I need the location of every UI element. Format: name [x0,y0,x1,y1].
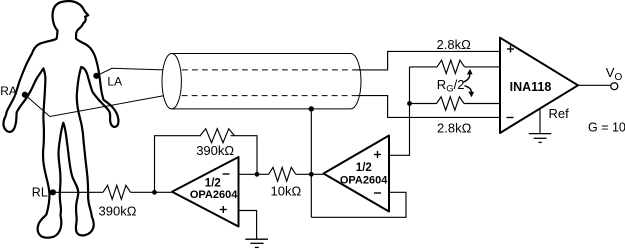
svg-text:RL: RL [32,185,48,199]
svg-text:2.8kΩ: 2.8kΩ [437,37,472,52]
node RL/feedback junction [152,190,157,195]
wire U1 -in stub [239,173,269,175]
svg-text:INA118: INA118 [510,80,552,94]
wire 390k to opamp output [131,191,173,193]
svg-text:Ref: Ref [549,106,570,121]
svg-text:LA: LA [107,75,122,89]
svg-text:390kΩ: 390kΩ [99,204,137,219]
resistor 390k (feedback) [200,129,235,143]
plus symbol U3 [507,48,514,50]
cable top line [172,53,351,55]
electrode RL [50,189,56,195]
resistor RG/2 top [437,60,465,73]
node RG midpoint [407,101,412,106]
svg-text:10kΩ: 10kΩ [271,183,302,198]
svg-text:1/2: 1/2 [356,162,372,174]
svg-text:OPA2604: OPA2604 [190,189,238,201]
resistor 390k (RL drive) [103,185,131,199]
wire bottom conductor to INA -in [358,96,501,118]
conductor top dashed [182,69,356,71]
electrode RA [22,92,28,98]
svg-text:1/2: 1/2 [205,177,221,189]
wire Ref to ground [539,109,541,134]
svg-text:2.8kΩ: 2.8kΩ [437,120,472,135]
node inverting input [255,172,260,177]
op-amp U1 (1/2 OPA2604 inverting, points left) [172,157,239,227]
arrow RG to bottom resistor [465,86,472,93]
wire U2 -in feedback loop [311,192,406,217]
ground G1 [245,239,268,247]
wire INA output [578,84,611,86]
svg-text:390kΩ: 390kΩ [196,143,234,158]
arrow RG to top resistor [464,73,470,82]
wire U1 +in to ground [239,211,257,240]
wire top conductor to INA +in [356,51,500,70]
wire LA lead [96,68,163,76]
wire shield drive vertical [310,109,312,217]
wire feedback up-over [155,136,202,193]
plus symbol U2 [374,154,381,156]
svg-text:RA: RA [0,84,17,98]
wire RG top to INA pin [465,66,501,68]
terminal VO [611,83,618,90]
svg-text:G = 10: G = 10 [588,121,625,135]
resistor 10k [269,167,296,181]
wire U2 +in up to RG midpoint [389,67,410,155]
conductor bottom dashed [182,95,358,97]
wire RA lead [25,95,164,117]
cable right arc [351,54,361,109]
cable bottom line (shield) [172,108,351,110]
node buffer output [309,172,314,177]
electrode LA [93,73,99,79]
minus symbol U1 [223,173,230,175]
wire RG bottom rail [410,103,437,105]
op-amp U2 (1/2 OPA2604 buffer, points left) [324,136,390,212]
svg-text:OPA2604: OPA2604 [340,175,388,187]
wire RG top rail [410,66,438,68]
ground G2 [529,134,552,143]
wire RG bottom to INA pin [464,103,500,105]
resistor RG/2 bottom [437,97,465,110]
wire feedback to inverting node [231,136,258,175]
op-amp U3 INA118 [500,38,578,133]
wire 10k to buffer output [296,173,324,175]
shielded cable body [162,53,361,108]
plus symbol U1 [220,209,227,211]
minus symbol U3 [507,117,514,119]
node shield junction [309,106,314,111]
wire RL to 390k [53,191,103,193]
minus symbol U2 [374,192,381,194]
cable left ellipse [162,53,181,108]
human body outline [3,1,118,238]
